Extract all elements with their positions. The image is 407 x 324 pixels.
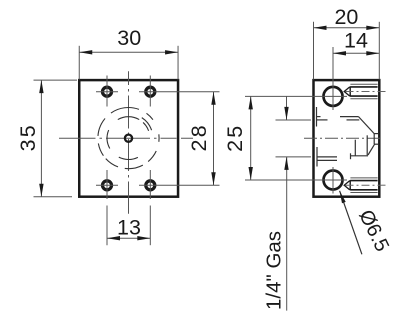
front view outline xyxy=(79,80,178,197)
front view vertical centerline xyxy=(128,71,130,214)
dimension 14 xyxy=(333,29,379,56)
top thread cylinder xyxy=(344,84,386,99)
hole bottom-left xyxy=(96,170,118,199)
svg-text:20: 20 xyxy=(334,5,358,29)
front view horizontal centerline xyxy=(59,137,193,139)
dimension 13 xyxy=(107,206,150,246)
dimension 28 xyxy=(139,92,220,186)
svg-text:35: 35 xyxy=(16,123,40,151)
center hole xyxy=(125,135,132,142)
1/4 Gas callout xyxy=(262,96,311,310)
diameter 6.5 leader xyxy=(340,191,393,255)
outer dashed circle xyxy=(98,108,159,169)
interior lower thread lines xyxy=(317,135,375,166)
circle vertical centerlines xyxy=(332,47,334,110)
dimension 25 xyxy=(223,96,347,180)
small exit square right edge xyxy=(374,134,378,145)
svg-text:28: 28 xyxy=(187,123,211,151)
dimension 35 xyxy=(16,80,77,197)
svg-text:30: 30 xyxy=(117,26,141,50)
bottom thread cylinder xyxy=(344,178,386,193)
svg-text:13: 13 xyxy=(117,216,141,240)
side view outline xyxy=(314,80,380,197)
interior upper thread lines xyxy=(317,107,375,134)
hole top-right xyxy=(146,76,155,107)
extra thread arc upper right xyxy=(142,118,152,131)
side view centerline xyxy=(304,137,382,139)
hole bottom-right xyxy=(146,170,155,199)
svg-text:14: 14 xyxy=(344,29,368,53)
inner dashed thread circle xyxy=(107,117,149,160)
svg-text:1/4" Gas: 1/4" Gas xyxy=(262,231,285,310)
port circle top xyxy=(324,87,343,106)
port circle bottom xyxy=(324,171,343,190)
svg-text:25: 25 xyxy=(223,124,247,152)
dimension 30 xyxy=(79,26,178,80)
dimension 20 xyxy=(314,5,380,80)
hole top-left xyxy=(96,76,118,107)
